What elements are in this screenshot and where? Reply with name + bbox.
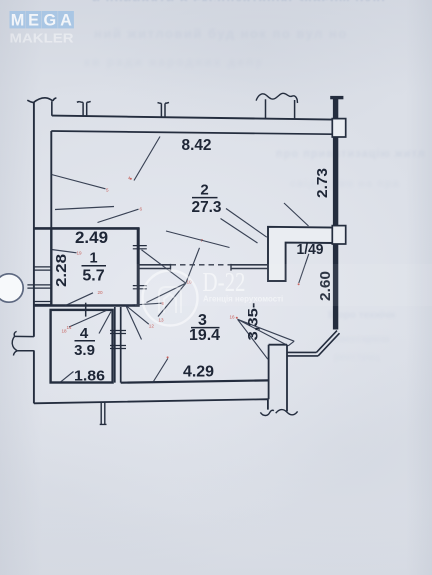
- leader room1 corner up: [98, 209, 139, 222]
- faint bleed-through text rows: [92, 0, 428, 1]
- left wall break stub: [15, 336, 34, 350]
- duct column bottom-right: [269, 345, 287, 412]
- corridor line lower: [140, 268, 171, 270]
- room 2 left wall: [50, 131, 52, 228]
- leader shallow to corridor: [166, 231, 230, 248]
- wall joint bump lower on right wall: [332, 226, 345, 244]
- svg-text:D-22: D-22: [203, 267, 246, 297]
- wire: room 2 top inner line: [51, 131, 331, 134]
- leader to balcony corner B: [221, 219, 258, 244]
- fan 3.35 to bay: [238, 319, 295, 359]
- left shaft stubs: [34, 267, 51, 270]
- svg-text:4: 4: [80, 325, 89, 342]
- break curl at outer line end: [260, 410, 274, 415]
- wall break squiggle top-left: [27, 98, 56, 116]
- svg-text:19: 19: [77, 251, 83, 256]
- balcony break protrusion top-right (wavy top): [266, 99, 295, 119]
- svg-text:E: E: [28, 11, 39, 29]
- jamb tick left end of dash: [170, 264, 172, 271]
- svg-text:A: A: [60, 11, 72, 29]
- fan room3 top-left: [126, 303, 162, 339]
- corridor line upper (with dashed opening): [140, 264, 171, 266]
- wire: top outer wall line: [52, 116, 333, 120]
- svg-text:19.4: 19.4: [189, 327, 220, 344]
- leader 4.29: [153, 359, 168, 384]
- svg-text:13: 13: [159, 318, 165, 323]
- svg-text:M: M: [11, 11, 25, 29]
- break tilde across column: [276, 410, 298, 415]
- svg-text:5.7: 5.7: [82, 268, 104, 285]
- right wall T-cap: [330, 96, 343, 99]
- svg-text:2.28: 2.28: [53, 254, 70, 287]
- leader 1/49: [299, 254, 309, 283]
- svg-text:20: 20: [98, 290, 104, 295]
- balcony 1/49 L-wall (white fill): [268, 227, 334, 281]
- svg-text:5: 5: [106, 188, 109, 193]
- leader from left wall: [52, 175, 106, 189]
- jamb tick right end of dash: [230, 264, 232, 271]
- leader red20: [65, 293, 93, 306]
- room1 right wall jamb ticks: [133, 246, 147, 249]
- leader red19: [52, 250, 77, 253]
- room 3 floor line: [121, 380, 269, 382]
- right thick wall: [333, 99, 338, 330]
- svg-text:8.42: 8.42: [182, 137, 212, 154]
- svg-text:16: 16: [230, 315, 236, 320]
- bottom outer wall line: [34, 399, 268, 409]
- leader to balcony corner A: [226, 209, 267, 238]
- room 1 box: [34, 227, 140, 230]
- svg-text:1: 1: [89, 251, 97, 267]
- svg-text:12: 12: [149, 324, 155, 329]
- svg-text:2.73: 2.73: [314, 168, 331, 198]
- door tick room4 top: [85, 303, 87, 317]
- divider wall rooms 4/3: [114, 307, 116, 383]
- wire: left outer wall lower segment: [33, 350, 35, 403]
- svg-text:27.3: 27.3: [192, 199, 222, 216]
- leader to bump2: [284, 203, 309, 226]
- leader 1.86: [60, 372, 74, 383]
- svg-text:MAKLER: MAKLER: [10, 31, 75, 46]
- watermark circle logo: [143, 271, 198, 326]
- svg-text:4.29: 4.29: [183, 364, 214, 381]
- svg-text:G: G: [43, 11, 56, 29]
- punch hole left edge: [0, 274, 23, 302]
- svg-text:1.86: 1.86: [74, 368, 105, 384]
- svg-text:Агенція нерухомості: Агенція нерухомості: [203, 295, 283, 304]
- wire: left outer wall upper segment: [33, 102, 35, 337]
- pipe stub below outer wall: [100, 402, 107, 425]
- wall joint bump upper on right wall: [332, 119, 345, 137]
- fan room4: [69, 310, 111, 334]
- leader to 8.42: [134, 137, 160, 181]
- bay window diagonal double wall: [316, 331, 339, 356]
- room 4 box: [51, 310, 113, 383]
- bay window bottom double wall: [287, 352, 318, 356]
- svg-text:3,35-: 3,35-: [245, 302, 261, 340]
- leader shallow left: [55, 207, 114, 210]
- svg-text:7: 7: [201, 238, 204, 243]
- pilaster 2 on top wall: [158, 102, 170, 117]
- svg-text:14: 14: [67, 325, 73, 330]
- svg-text:3.9: 3.9: [74, 342, 95, 359]
- divider wall jamb ticks: [110, 331, 126, 349]
- pilaster 1 on top wall: [77, 101, 91, 116]
- svg-text:1/49: 1/49: [297, 242, 324, 258]
- svg-text:6: 6: [140, 207, 143, 212]
- svg-text:2: 2: [200, 182, 208, 199]
- svg-text:2.49: 2.49: [75, 229, 108, 247]
- fan at corridor centre: [142, 248, 200, 317]
- faint white watermark band: [135, 264, 432, 306]
